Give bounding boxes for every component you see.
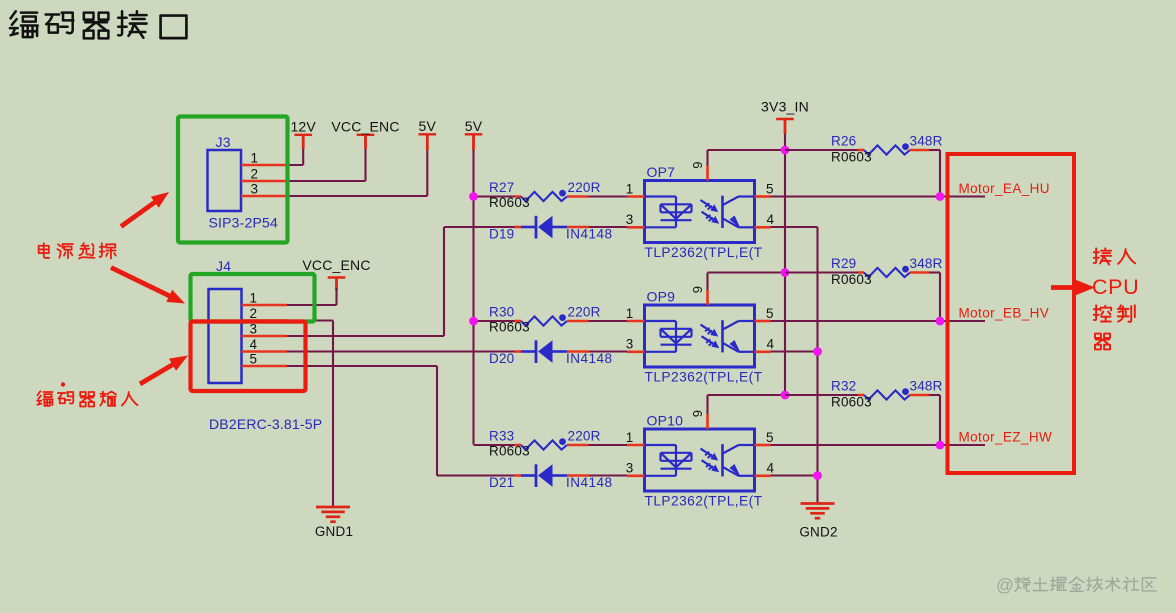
svg-text:SIP3-2P54: SIP3-2P54 (209, 215, 279, 231)
arrow to J4 red box (140, 364, 174, 384)
wire OP7 pin6 to 3V3 row (706, 150, 708, 166)
svg-text:D19: D19 (489, 227, 514, 242)
svg-text:5V: 5V (465, 118, 483, 134)
wire 5V rail to R27 (474, 195, 515, 197)
power flag 12V (290, 119, 316, 150)
wire R33 to OP pin1 (589, 444, 628, 446)
title text 编码器接口 (10, 11, 186, 38)
wire R29 down to motor row (939, 273, 941, 322)
resistor R32 348R (785, 379, 943, 410)
arrow to J3 (121, 201, 156, 226)
resistor R26 348R (785, 134, 943, 165)
svg-text:5: 5 (766, 306, 774, 321)
junction dot motor row Motor_EA_HU (936, 192, 945, 201)
svg-text:5: 5 (250, 351, 258, 366)
green annotation box around J4 pins 1-2 (191, 274, 315, 322)
wire J4 pin4 to D20 row (287, 350, 515, 352)
svg-text:6: 6 (690, 162, 705, 169)
wire OP10 pin4 to GND rail (771, 474, 818, 476)
svg-text:220R: 220R (568, 429, 601, 444)
power flag 5V (rail) (465, 118, 483, 150)
wire OP9 pin4 to GND rail (771, 350, 818, 352)
svg-text:Motor_EZ_HW: Motor_EZ_HW (959, 430, 1053, 445)
svg-text:TLP2362(TPL,E(T: TLP2362(TPL,E(T (645, 245, 763, 260)
op-amp optocoupler OP7 TLP2362 (626, 162, 775, 261)
wire J4 pin3 up to D19 row (287, 335, 444, 337)
junction dot motor row Motor_EB_HV (936, 317, 945, 326)
power flag 3V3_IN (761, 99, 809, 135)
junction dot 3V3 rail row R32 (781, 391, 790, 400)
svg-text:IN4148: IN4148 (566, 351, 613, 366)
power flag VCC_ENC (J4) (302, 257, 370, 290)
svg-text:OP7: OP7 (647, 164, 676, 180)
svg-text:Motor_EA_HU: Motor_EA_HU (959, 181, 1050, 196)
svg-text:1: 1 (250, 290, 258, 305)
svg-text:5: 5 (766, 181, 774, 196)
diode D20 IN4148 (489, 340, 613, 366)
svg-text:1: 1 (626, 306, 634, 321)
svg-text:J3: J3 (216, 134, 231, 150)
svg-text:5V: 5V (419, 118, 437, 134)
connector J4 (DB2ERC-3.81-5P) (209, 258, 323, 432)
svg-text:R0603: R0603 (831, 395, 872, 410)
label 电源选择 (39, 243, 116, 258)
ground GND1 (315, 507, 353, 539)
wire OP9 pin5 to net Motor_EB_HV (771, 320, 986, 322)
label 接入 CPU 控制器 (1092, 248, 1139, 349)
junction dot GND rail OP9 pin4 (813, 347, 822, 356)
wire VCC_ENC stem to J3 pin2 (364, 149, 366, 181)
junction dot 3V3 rail row R29 (781, 268, 790, 277)
svg-text:D21: D21 (489, 475, 514, 490)
wire OP7 pin5 to net Motor_EA_HU (771, 195, 986, 197)
junction dot motor row Motor_EZ_HW (936, 441, 945, 450)
junction dot 3V3 rail row R26 (781, 146, 790, 155)
svg-text:1: 1 (251, 150, 259, 165)
junction dot 5V rail row R30 (469, 317, 478, 326)
svg-text:R0603: R0603 (489, 195, 530, 210)
svg-text:TLP2362(TPL,E(T: TLP2362(TPL,E(T (645, 494, 763, 509)
svg-text:CPU: CPU (1092, 275, 1139, 299)
wire R32 down to motor row (939, 395, 941, 445)
resistor R27 220R (489, 180, 601, 210)
svg-text:3: 3 (251, 181, 259, 196)
arrow to CPU text (1051, 285, 1077, 290)
svg-text:VCC_ENC: VCC_ENC (302, 257, 370, 273)
svg-text:1: 1 (626, 181, 634, 196)
wire VCC_ENC stem to J4 pin1 (335, 288, 337, 305)
resistor R30 220R (489, 305, 601, 335)
svg-text:DB2ERC-3.81-5P: DB2ERC-3.81-5P (209, 416, 322, 432)
svg-text:R33: R33 (489, 429, 514, 444)
svg-text:348R: 348R (910, 256, 943, 271)
wire R27 to OP pin1 (589, 195, 628, 197)
svg-text:3: 3 (250, 321, 258, 336)
power flag 5V (J3) (419, 118, 437, 150)
wire D20 to OP pin3 (589, 350, 627, 352)
svg-text:6: 6 (690, 410, 705, 417)
wire GND rail vertical (816, 227, 818, 504)
svg-text:VCC_ENC: VCC_ENC (331, 119, 399, 135)
wire J4 pin2 to GND1 (287, 319, 333, 321)
svg-text:3: 3 (626, 337, 634, 352)
wire D19 to OP pin3 (589, 226, 627, 228)
svg-text:@: @ (996, 575, 1014, 595)
svg-text:3V3_IN: 3V3_IN (761, 99, 809, 115)
svg-text:5: 5 (766, 430, 774, 445)
svg-text:GND2: GND2 (799, 525, 837, 540)
op-amp optocoupler OP9 TLP2362 (626, 286, 775, 385)
svg-text:3: 3 (626, 461, 634, 476)
svg-text:4: 4 (767, 337, 775, 352)
svg-text:4: 4 (250, 337, 258, 352)
wire OP10 pin5 to net Motor_EZ_HW (771, 444, 986, 446)
svg-text:348R: 348R (910, 379, 943, 394)
svg-text:OP10: OP10 (647, 413, 684, 429)
svg-text:4: 4 (767, 212, 775, 227)
wire OP9 pin6 to 3V3 row (706, 273, 708, 291)
green annotation box around J3 (178, 117, 288, 243)
svg-text:J4: J4 (216, 258, 231, 274)
wire OP10 pin6 to 3V3 row (706, 395, 708, 414)
wire 5V stem to J3 pin3 (426, 150, 428, 196)
junction dot 5V rail row R27 (469, 192, 478, 201)
power flag VCC_ENC (top) (331, 119, 399, 150)
svg-text:GND1: GND1 (315, 524, 353, 539)
svg-text:2: 2 (250, 306, 258, 321)
svg-text:IN4148: IN4148 (566, 227, 613, 242)
op-amp optocoupler OP10 TLP2362 (626, 410, 775, 509)
svg-text:R0603: R0603 (831, 272, 872, 287)
ground GND2 (799, 504, 837, 540)
svg-text:3: 3 (626, 212, 634, 227)
wire 3V3 vertical rail (784, 134, 786, 395)
svg-text:R29: R29 (831, 256, 856, 271)
svg-text:R30: R30 (489, 305, 514, 320)
svg-text:R26: R26 (831, 134, 856, 149)
svg-text:R0603: R0603 (489, 320, 530, 335)
wire 5V vertical rail (472, 150, 474, 445)
label 编码器输入 (37, 391, 137, 406)
diode D21 IN4148 (489, 464, 613, 490)
wire 5V rail to R30 (474, 320, 515, 322)
svg-text:220R: 220R (568, 305, 601, 320)
svg-text:IN4148: IN4148 (566, 475, 613, 490)
red annotation box (CPU signals) (948, 154, 1075, 473)
wire 12V stem to J3 pin1 (302, 149, 304, 165)
svg-text:R27: R27 (489, 180, 514, 195)
svg-text:R32: R32 (831, 379, 856, 394)
svg-text:12V: 12V (290, 119, 316, 135)
svg-text:D20: D20 (489, 351, 514, 366)
resistor R29 348R (785, 256, 943, 287)
wire OP7 pin4 to GND rail (771, 226, 818, 228)
resistor R33 220R (489, 429, 601, 459)
wire D21 to OP pin3 (589, 474, 627, 476)
svg-text:Motor_EB_HV: Motor_EB_HV (959, 306, 1050, 321)
svg-text:6: 6 (690, 286, 705, 293)
svg-text:348R: 348R (910, 134, 943, 149)
svg-text:220R: 220R (568, 180, 601, 195)
junction dot GND rail OP10 pin4 (813, 471, 822, 480)
svg-text:2: 2 (251, 166, 259, 181)
wire R26 down to motor row (939, 150, 941, 197)
svg-text:4: 4 (767, 461, 775, 476)
wire 5V rail to R33 (474, 444, 515, 446)
red annotation box around J4 pins 3-5 (191, 322, 306, 392)
connector J3 (SIP3-2P54) (208, 134, 288, 231)
svg-text:1: 1 (626, 430, 634, 445)
svg-text:R0603: R0603 (831, 150, 872, 165)
svg-text:R0603: R0603 (489, 444, 530, 459)
watermark @稀土掘金技术社区 (996, 575, 1156, 595)
wire J4 pin5 down to D21 row (287, 365, 437, 367)
svg-text:OP9: OP9 (647, 289, 676, 305)
wire R30 to OP pin1 (589, 320, 628, 322)
svg-text:TLP2362(TPL,E(T: TLP2362(TPL,E(T (645, 370, 763, 385)
diode D19 IN4148 (489, 216, 613, 242)
arrow to J4 (111, 268, 171, 297)
